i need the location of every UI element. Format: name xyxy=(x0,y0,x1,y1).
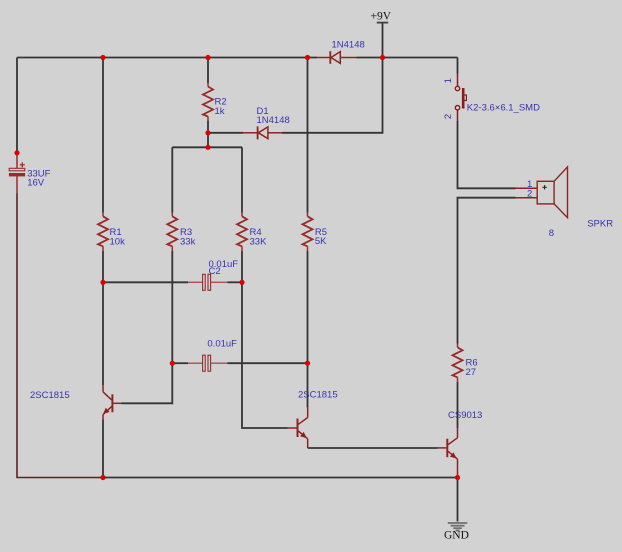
svg-text:16V: 16V xyxy=(27,178,45,189)
node R2 top xyxy=(205,55,210,60)
wire C2 row right xyxy=(228,281,243,283)
svg-text:SPKR: SPKR xyxy=(587,218,613,229)
resistor R4 33K xyxy=(237,213,247,251)
node C3 right xyxy=(305,361,310,366)
svg-text:1k: 1k xyxy=(215,106,225,117)
wire R5 column lower to C3 node xyxy=(307,251,309,363)
power bar +9V xyxy=(377,22,388,24)
wire R4 column upper xyxy=(241,147,243,213)
wire R5 column upper xyxy=(307,58,309,213)
svg-text:2SC1815: 2SC1815 xyxy=(30,390,70,401)
transistor Q3 CS9013 xyxy=(438,428,458,477)
node C3 left xyxy=(170,361,175,366)
transistor Q2 2SC1815 xyxy=(288,408,308,448)
svg-text:C2: C2 xyxy=(209,266,221,277)
capacitor C3 0.01uF xyxy=(188,355,228,371)
resistor R5 5K xyxy=(303,213,313,251)
wire R1 column lower xyxy=(102,251,104,385)
wire R4 node down to Q2 base xyxy=(242,282,288,428)
svg-text:8: 8 xyxy=(549,228,554,239)
wire C3 node down to Q2 collector xyxy=(307,363,309,408)
node R1 top xyxy=(100,55,105,60)
wire R2 bottom to node xyxy=(207,120,209,133)
wire R3 column lower to C3 node xyxy=(171,251,173,363)
resistor R3 33k xyxy=(167,213,177,251)
svg-text:27: 27 xyxy=(466,367,477,378)
wire D1 row right, up to +9V column xyxy=(282,23,383,133)
transistor Q1 emitter arrow xyxy=(103,408,110,415)
svg-text:CS9013: CS9013 xyxy=(448,410,482,421)
node C2 right xyxy=(239,280,244,285)
svg-text:2: 2 xyxy=(527,189,532,200)
wire D1 row left xyxy=(208,132,243,134)
node C1 top xyxy=(14,150,19,155)
wire C3 row right xyxy=(228,362,308,364)
wire left column top xyxy=(16,58,18,151)
wire node to feedback rail xyxy=(207,133,209,148)
svg-text:1N4148: 1N4148 xyxy=(332,40,365,51)
capacitor C2 0.01uF xyxy=(188,274,228,290)
wire R6 to Q3 collector xyxy=(457,382,459,429)
svg-text:0.01uF: 0.01uF xyxy=(207,338,237,349)
ground symbol xyxy=(448,523,468,531)
node R5 top xyxy=(305,55,310,60)
wire R3 column upper xyxy=(171,147,173,213)
transistor Q2 emitter arrow xyxy=(300,432,307,438)
wire Q2 emitter row to Q3 base xyxy=(308,447,438,449)
wire Q1 emitter to bottom rail xyxy=(102,419,104,477)
wire switch to speaker pin1 xyxy=(458,121,516,188)
wire top rail left segment xyxy=(17,57,317,59)
resistor R6 27 xyxy=(453,344,463,382)
svg-text:10k: 10k xyxy=(110,237,126,248)
wire left column below capacitor (dark red net) xyxy=(17,194,103,478)
transistor Q3 emitter arrow xyxy=(450,452,457,458)
wire right column top to switch xyxy=(457,58,459,74)
svg-text:+9V: +9V xyxy=(371,11,392,23)
wire R4 column lower to C2 node xyxy=(241,251,243,282)
svg-text:K2-3.6×6.1_SMD: K2-3.6×6.1_SMD xyxy=(467,103,540,114)
svg-text:33k: 33k xyxy=(180,237,196,248)
resistor R2 1k xyxy=(203,83,213,120)
wire feedback top rail xyxy=(172,146,242,148)
svg-text:5K: 5K xyxy=(315,236,327,247)
node Q1 emitter bottom xyxy=(100,475,105,480)
wire R2 column top xyxy=(207,58,209,84)
capacitor C1 33UF electrolytic xyxy=(9,151,25,194)
svg-text:2: 2 xyxy=(443,114,454,119)
svg-text:GND: GND xyxy=(444,530,469,542)
speaker SPKR xyxy=(516,167,568,218)
diode D1 xyxy=(243,126,282,139)
svg-text:1: 1 xyxy=(443,78,454,83)
node R2/D1 xyxy=(205,130,210,135)
svg-text:33K: 33K xyxy=(250,237,268,248)
node feedback rail xyxy=(205,145,210,150)
svg-text:1N4148: 1N4148 xyxy=(257,115,290,126)
switch K2 pushbutton xyxy=(455,74,466,122)
wire top rail right segment xyxy=(357,57,458,59)
wire C3 node down and to Q1 base xyxy=(122,363,173,403)
wire C3 row left xyxy=(172,362,188,364)
speaker plus mark xyxy=(542,185,546,189)
transistor Q1 2SC1815 xyxy=(103,385,122,419)
svg-text:2SC1815: 2SC1815 xyxy=(298,390,338,401)
wire R1 column upper xyxy=(102,58,104,213)
node +9V tap xyxy=(380,55,385,60)
node C2 left xyxy=(100,280,105,285)
wire bottom rail xyxy=(103,477,458,479)
resistor R1 10k xyxy=(98,213,108,251)
node Q3 emitter bottom xyxy=(455,475,460,480)
diode top 1N4148 xyxy=(317,51,357,64)
wire Q3 emitter node down to ground xyxy=(457,478,459,522)
wire speaker pin2 down to R6 xyxy=(458,198,516,344)
wire C2 row left xyxy=(103,281,188,283)
